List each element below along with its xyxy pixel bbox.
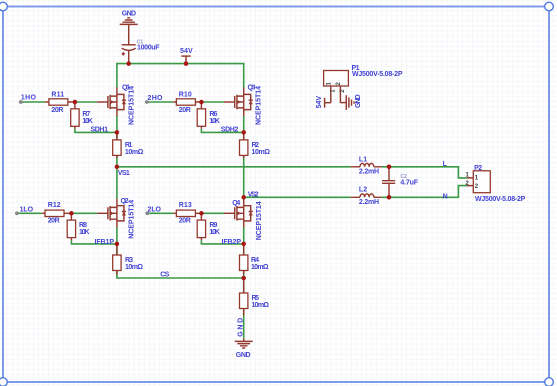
svg-text:GND: GND bbox=[237, 318, 244, 337]
svg-text:R10: R10 bbox=[179, 92, 192, 99]
svg-text:R9: R9 bbox=[209, 222, 217, 229]
svg-text:L2: L2 bbox=[359, 187, 367, 194]
svg-text:WJ500V-5.08-2P: WJ500V-5.08-2P bbox=[352, 71, 403, 78]
svg-text:VS2: VS2 bbox=[248, 191, 259, 198]
svg-text:54V: 54V bbox=[316, 96, 323, 109]
svg-text:4.7uF: 4.7uF bbox=[400, 180, 418, 187]
svg-text:10K: 10K bbox=[82, 118, 93, 125]
svg-text:10K: 10K bbox=[209, 229, 220, 236]
svg-text:R7: R7 bbox=[82, 111, 90, 118]
svg-text:SDH2: SDH2 bbox=[221, 126, 239, 133]
svg-text:R4: R4 bbox=[251, 257, 259, 264]
svg-text:GND: GND bbox=[236, 352, 251, 359]
svg-text:10mΩ: 10mΩ bbox=[125, 264, 143, 271]
svg-text:R12: R12 bbox=[48, 202, 61, 209]
svg-text:NCEP15T14: NCEP15T14 bbox=[129, 86, 136, 125]
svg-text:2LO: 2LO bbox=[148, 206, 162, 213]
svg-text:R3: R3 bbox=[125, 257, 133, 264]
svg-text:10K: 10K bbox=[209, 118, 220, 125]
svg-text:Q2: Q2 bbox=[121, 198, 129, 205]
svg-text:R6: R6 bbox=[209, 111, 217, 118]
svg-text:1HO: 1HO bbox=[21, 95, 37, 102]
svg-text:CS: CS bbox=[160, 272, 169, 279]
svg-text:R8: R8 bbox=[79, 222, 87, 229]
svg-text:20R: 20R bbox=[179, 217, 191, 224]
svg-text:2HO: 2HO bbox=[148, 95, 164, 102]
svg-text:1LO: 1LO bbox=[20, 206, 34, 213]
svg-text:NCEP15T14: NCEP15T14 bbox=[129, 200, 136, 239]
svg-text:R11: R11 bbox=[51, 92, 64, 99]
svg-text:1000uF: 1000uF bbox=[137, 44, 160, 51]
svg-text:2.2mH: 2.2mH bbox=[359, 169, 379, 176]
svg-text:10mΩ: 10mΩ bbox=[125, 149, 144, 156]
svg-text:P2: P2 bbox=[474, 165, 482, 172]
svg-text:20R: 20R bbox=[51, 107, 63, 114]
svg-text:Q3: Q3 bbox=[248, 84, 256, 91]
svg-text:GND: GND bbox=[122, 10, 136, 17]
svg-text:WJ500V-5.08-2P: WJ500V-5.08-2P bbox=[475, 196, 526, 203]
svg-text:R13: R13 bbox=[179, 202, 192, 209]
svg-text:L: L bbox=[443, 161, 448, 168]
svg-text:NCEP15T14: NCEP15T14 bbox=[256, 201, 263, 240]
svg-text:N: N bbox=[443, 194, 448, 201]
svg-text:10mΩ: 10mΩ bbox=[252, 149, 271, 156]
svg-text:2.2mH: 2.2mH bbox=[359, 199, 379, 206]
svg-text:Q4: Q4 bbox=[232, 200, 240, 207]
svg-text:VS1: VS1 bbox=[118, 170, 130, 177]
svg-text:54V: 54V bbox=[180, 48, 193, 55]
svg-text:20R: 20R bbox=[48, 217, 60, 224]
svg-text:R2: R2 bbox=[252, 142, 260, 149]
svg-text:IFB1P: IFB1P bbox=[95, 239, 115, 246]
svg-text:10K: 10K bbox=[79, 229, 90, 236]
svg-text:NCEP15T14: NCEP15T14 bbox=[255, 86, 262, 125]
svg-text:20R: 20R bbox=[179, 107, 191, 114]
svg-text:10mΩ: 10mΩ bbox=[251, 264, 269, 271]
svg-text:IFB2P: IFB2P bbox=[222, 239, 242, 246]
svg-text:R1: R1 bbox=[125, 142, 133, 149]
svg-text:SDH1: SDH1 bbox=[91, 126, 109, 133]
svg-text:L1: L1 bbox=[359, 156, 367, 163]
svg-text:GND: GND bbox=[355, 94, 362, 108]
svg-text:10mΩ: 10mΩ bbox=[252, 302, 270, 309]
